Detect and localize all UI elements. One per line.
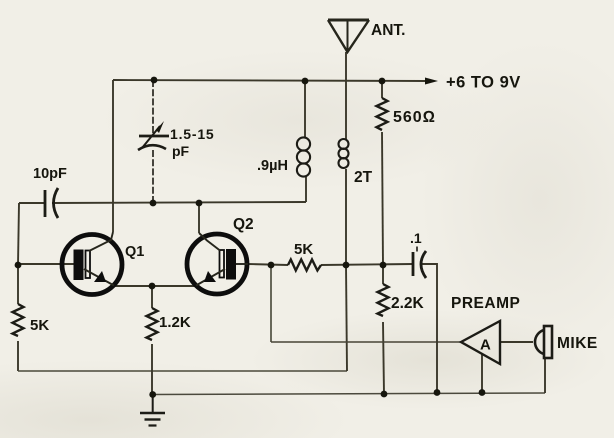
wire Q2 base row [247, 264, 413, 265]
svg-text:pF: pF [172, 143, 190, 159]
supply arrow +6 TO 9V [425, 74, 521, 92]
resistor R4 5K horizontal [288, 260, 321, 271]
node 2.2K-rail [381, 391, 388, 398]
svg-text:1.5-15: 1.5-15 [170, 126, 215, 142]
node ground-junction [149, 391, 156, 398]
svg-text:Q1: Q1 [125, 244, 144, 260]
transistor Q1 [62, 232, 122, 295]
node C3-rail [434, 389, 441, 396]
wire tank bottom line [19, 202, 306, 203]
wire left branch vertical [18, 203, 19, 371]
wire bottom ground rail [152, 393, 545, 395]
resistor R3 1.2K [147, 308, 158, 340]
capacitor C2 10pF [45, 188, 58, 218]
wire 560 ohm and 2.2K line [382, 81, 384, 394]
svg-text:+6 TO 9V: +6 TO 9V [446, 74, 521, 92]
wire C3 right lead [420, 264, 437, 392]
node tank-Q2 collector [196, 200, 203, 207]
svg-text:10pF: 10pF [33, 166, 67, 182]
svg-text:Q2: Q2 [233, 216, 254, 233]
wire emitter bus [114, 285, 197, 287]
node 560-2.2K [380, 262, 387, 269]
wire preamp to mike [500, 341, 533, 343]
inductor L2 2T [339, 139, 349, 168]
node tank-varcap [150, 200, 157, 207]
svg-text:MIKE: MIKE [557, 335, 598, 352]
wire Q2 collector riser [198, 203, 200, 233]
wire Q1 base lead [18, 263, 74, 265]
svg-text:2T: 2T [354, 169, 373, 186]
node emitter-1.2K [149, 283, 156, 290]
svg-text:.1: .1 [410, 230, 422, 246]
node rail-L1 [302, 78, 309, 85]
svg-text:.9µH: .9µH [257, 158, 288, 174]
wire Q1 collector riser [112, 80, 114, 232]
wire variable capacitor leads [152, 80, 154, 203]
svg-text:ANT.: ANT. [371, 22, 405, 39]
resistor R1 560 ohm [377, 98, 388, 130]
wire antenna and L2 line [346, 52, 347, 371]
ground [140, 395, 165, 426]
capacitor C3 .1 [413, 251, 426, 278]
wire 1.2K leads [151, 286, 153, 394]
node Q2 base [268, 262, 275, 269]
node rail-varcap [151, 77, 158, 84]
resistor R5 2.2K [378, 284, 389, 316]
antenna [328, 20, 369, 52]
inductor L1 .9uH [297, 137, 310, 176]
svg-text:560Ω: 560Ω [393, 109, 436, 126]
wire top supply rail [113, 80, 425, 81]
wire preamp ground lead [481, 353, 483, 392]
node L2-row [343, 262, 350, 269]
wire mike ground lead [544, 358, 546, 393]
svg-text:1.2K: 1.2K [159, 314, 191, 331]
wire preamp output run [271, 265, 461, 342]
label 1.5-15 pF [170, 126, 215, 159]
node rail-560 [379, 78, 386, 85]
wire bottom feedback run [18, 370, 347, 372]
svg-text:5K: 5K [30, 317, 49, 334]
wire L1 leads [305, 81, 306, 202]
resistor R2 5K [13, 304, 24, 336]
svg-text:2.2K: 2.2K [391, 295, 425, 312]
svg-text:PREAMP: PREAMP [451, 295, 520, 312]
svg-text:A: A [480, 337, 491, 354]
op-amp U1 preamp [461, 321, 500, 364]
node preamp-rail [479, 389, 486, 396]
variable capacitor C1 1.5-15 pF [138, 121, 169, 150]
microphone MIKE [535, 326, 552, 358]
svg-text:5K: 5K [294, 241, 313, 258]
transistor Q2 [187, 233, 248, 294]
node Q1 base [15, 262, 22, 269]
